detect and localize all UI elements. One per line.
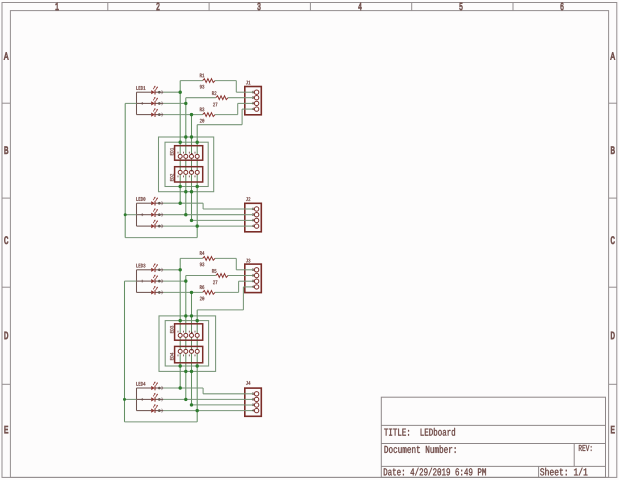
frame column numbers [56,3,59,10]
diode LED1 element 3 [137,114,152,116]
wire net N5 vertical (lower) [179,258,181,388]
resistor R1 [203,79,215,83]
wire R5 to J3 pin 2 [228,275,245,277]
pin 1 mark of ED1 [191,153,193,155]
label ED4 (rotated) [170,353,173,360]
label R2 [212,91,216,95]
junction dots (lower) [179,268,182,271]
wire R1 to net N1 [180,80,202,82]
frame row letters (right) [610,52,615,59]
diode LED0 element 2 [137,214,152,216]
wire common bracket of LED1 [136,92,138,114]
pad 3 of ED4 [190,349,194,353]
pad 1 of ED1 [178,154,182,158]
diode LED0 element 1 [137,202,152,204]
wire LED4 row2 to J4 pin 2 [163,398,244,400]
wire net N6 vertical (lower) [185,276,187,400]
value 93 of R1 [200,85,204,89]
wire LED1 row1 to net N1 [163,91,180,93]
document number text [385,445,456,453]
diode LED4 element 2 [137,398,152,400]
label J3 [246,259,250,263]
label J2 [246,197,250,201]
diode LED3 element 1 [137,269,152,271]
pad 4 of ED2 [195,170,199,174]
origin cross of LED1 [141,102,144,104]
resistor R2 [216,96,228,100]
diode LED3 element 3 [137,291,152,293]
wire LED4 row3 to J4 pin 4 [163,410,244,412]
pin 4 of J1 [245,108,255,110]
wire LED1 common net (upper left) [124,103,126,237]
value 27 of R2 [213,103,217,107]
LED group LED1 [136,86,145,90]
pin 1 of J4 [245,393,255,395]
pin 1 of J3 [245,269,255,271]
pin 1 of J2 [245,208,255,210]
pad 2 of ED4 [184,349,188,353]
title block REV divider [573,444,575,467]
sheet text [540,468,587,476]
resistor R3 [203,113,215,117]
title text [384,428,455,436]
label J1 [246,81,250,85]
LED package ED3 [175,324,203,340]
wire J1 pin 4 loop to net N4 [242,108,245,110]
junction dots (upper) [179,91,182,94]
wire LED3 row1 to net N5 [163,269,180,271]
label ED3 (rotated) [170,326,173,333]
pin 1 mark of ED2 [191,170,193,172]
pad 4 of ED4 [195,349,199,353]
wire LED1 row2 to net N2 [163,102,185,104]
wire R4 to net N5 [180,257,202,259]
pad 2 of ED1 [184,154,188,158]
wire R1 to J1 pin 1 [215,80,236,82]
frame row letters (left) [4,52,9,59]
pad 1 of ED2 [178,170,182,174]
pad 4 of ED3 [195,333,199,337]
diode LED3 element 2 [137,280,152,282]
value 27 of R5 [213,280,217,284]
pad 3 of ED2 [190,170,194,174]
label J4 [246,381,250,385]
pin header connector J4 [245,388,261,416]
pad 3 of ED1 [190,154,194,158]
pin 1 of J1 [245,91,255,93]
wire LED0 row1 to J2 pin 1 [163,202,203,204]
frame column ticks (top) [107,3,109,11]
resistor R5 [216,274,228,278]
net bus outer loop (upper) [159,137,214,192]
label R6 [200,285,204,289]
diode LED1 element 2 [137,102,152,104]
title block row lines [381,424,605,426]
resistor R4 [203,257,215,261]
diode LED0 element 3 [137,225,152,227]
pin 3 of J3 [245,280,255,282]
origin cross of LED3 [141,280,144,282]
title block border [381,397,605,477]
pin header connector J2 [245,203,261,232]
pin 4 of J4 [245,410,255,412]
pin 2 of J1 [245,97,255,99]
frame row ticks (right) [609,102,617,104]
wire net N2 vertical (upper) [185,98,187,215]
wire R2 to net N2 [186,97,216,99]
LED group LED4 [136,382,145,386]
wire net N8 vertical (lower) [196,310,198,422]
wire R6 to J3 pin 3 [215,291,239,293]
diode LED4 element 1 [137,387,152,389]
origin cross of LED4 [141,398,144,400]
REV text [579,445,592,451]
label ED1 (rotated) [170,148,173,155]
wire R2 to J1 pin 2 [228,97,245,99]
wire net N1 vertical (upper) [179,81,181,204]
value 20 of R6 [200,297,204,301]
net bus inner loop (lower) [165,321,208,366]
wire LED3 row3 to R6 [163,291,202,293]
pin 1 mark of ED3 [191,332,193,334]
net bus inner loop (upper) [165,142,208,186]
wire net N3 to J2 pin 3 [192,219,245,221]
diode LED4 element 3 [137,410,152,412]
LED package ED2 [175,167,203,182]
pad 2 of ED3 [184,333,188,337]
wire common bracket of LED4 [136,388,138,411]
value 93 of R4 [200,263,204,267]
pad 2 of ED2 [184,170,188,174]
pin 1 mark of ED4 [191,349,193,351]
wire R3 to J1 pin 3 [215,114,238,116]
pin header connector J3 [245,264,261,293]
frame row ticks (left) [2,102,10,104]
diode LED1 element 1 [137,91,152,93]
wire net N7 vertical (lower) [191,292,193,405]
pin 4 of J3 [245,286,255,288]
pin header connector J1 [245,87,261,115]
wire net N3 vertical (upper) [191,115,193,221]
title block Sheet divider [538,466,540,477]
pin 2 of J2 [245,214,255,216]
label R3 [200,108,204,112]
wire LED4 row1 to J4 pin 1 [163,387,203,389]
pin 4 of J2 [245,225,255,227]
label ED2 (rotated) [170,174,173,181]
wire R5 to net N6 [186,275,216,277]
net bus outer loop (lower) [159,316,216,372]
pin 2 of J3 [245,275,255,277]
pad 1 of ED4 [178,349,182,353]
value 20 of R3 [200,119,204,123]
pin 3 of J1 [245,102,255,104]
LED package ED4 [175,346,203,362]
pin 3 of J2 [245,219,255,221]
LED package ED1 [175,146,203,161]
LED group LED0 [136,197,145,201]
label R4 [200,251,204,255]
wire J3 pin 4 loop to net N8 [243,286,244,288]
origin cross of LED0 [141,214,144,216]
label R1 [200,74,204,78]
wire LED3 common net (lower left) [124,281,126,422]
pad 4 of ED1 [195,154,199,158]
pad 3 of ED3 [190,333,194,337]
wire LED0 row3 to J2 pin 4 [163,225,244,227]
resistor R6 [203,291,215,295]
label R5 [212,269,216,273]
wire LED3 row2 to net N6 [163,280,185,282]
pin 2 of J4 [245,398,255,400]
date text [384,468,486,476]
pad 1 of ED3 [178,333,182,337]
wire common bracket of LED0 [136,203,138,226]
LED group LED3 [136,264,145,268]
wire net N4 vertical (upper) [196,125,198,238]
wire LED0 row2 to J2 pin 2 [163,214,244,216]
wire common bracket of LED3 [136,270,138,293]
wire LED1 row3 to R3 [163,114,202,116]
pin 3 of J4 [245,404,255,406]
wire net N7 to J4 pin 3 [192,404,245,406]
wire R4 to J3 pin 1 [215,257,236,259]
